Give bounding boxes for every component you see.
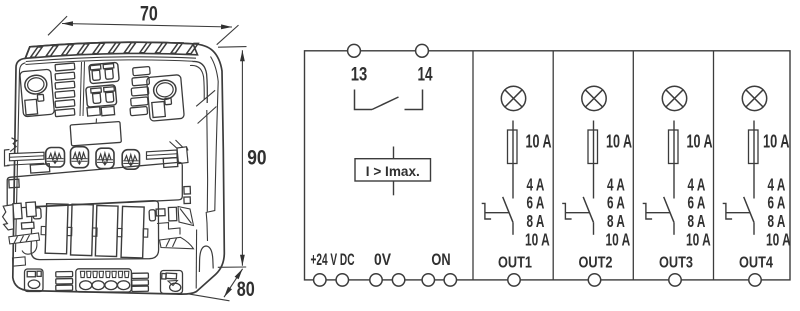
svg-text:4 A: 4 A [527,175,545,195]
overload relay modules [46,148,65,168]
front face top-right rounded corner [193,61,208,103]
svg-text:8 A: 8 A [688,211,706,231]
right bracket small [156,209,165,216]
section divider 3 [632,51,634,280]
supply terminal 5 [422,274,434,286]
linkage stub above Imax box [393,147,395,159]
right potentiometer knob inner [156,82,175,98]
right knob sub rectangle [152,101,166,117]
output terminal OUT3 [669,274,681,286]
dimension 90 extension ticks [218,46,247,49]
left wedge curve [22,241,37,255]
left clip slot tall 2 [26,202,36,217]
supply terminal 4 [392,274,404,286]
side face diagonal creases [196,90,215,106]
wire lamp to fuse OUT1 [512,121,514,199]
bottom center cluster [76,269,132,292]
DIN rail left hook [5,150,10,167]
fuse F1 [508,130,518,164]
terminal ellipses [80,281,92,290]
supply terminal 1 [314,274,326,286]
svg-text:90: 90 [247,145,266,169]
container tab right [149,210,156,221]
fuse F2 [588,130,598,164]
left clip small bar [21,222,34,229]
wire switch to terminal OUT2 [593,222,595,235]
relay contact 13-14 [355,90,373,110]
left potentiometer knob outer [24,74,48,95]
left knob sub rectangle [25,99,38,115]
central connector block upper [89,62,120,83]
svg-text:OUT1: OUT1 [498,255,532,272]
supply terminal 3 [370,274,382,286]
svg-text:13: 13 [351,65,368,86]
front face inner left edge [16,63,26,252]
svg-text:80: 80 [237,277,255,301]
supply terminal 6 [444,274,456,286]
container tab left [33,208,41,219]
svg-text:10 A: 10 A [525,229,550,249]
left edge hook clip [3,205,14,230]
linkage stub below Imax box [393,181,395,195]
mid panel tab left [30,164,50,173]
svg-text:4 A: 4 A [607,175,625,195]
switch blade S4 [744,197,754,222]
svg-text:8 A: 8 A [768,211,786,231]
front/side boundary bottom [195,230,197,289]
side face bottom arch [199,246,213,272]
switch blade S1 [503,197,513,222]
svg-text:OUT3: OUT3 [659,255,693,272]
right folded tab [178,207,194,226]
device top hatched vent band [25,42,197,58]
svg-text:OUT2: OUT2 [579,255,613,272]
manual actuator S4 [723,203,750,219]
section divider 4 [713,51,715,280]
fuse F3 [669,130,679,164]
blank label field [70,121,121,145]
vent slashes [31,43,199,58]
svg-text:10 A: 10 A [526,132,552,152]
svg-text:6 A: 6 A [527,193,545,213]
left LED window column [55,63,75,71]
middle LED window column [133,66,151,75]
device body outline [13,42,225,294]
svg-text:+24 V DC: +24 V DC [311,251,355,269]
svg-text:10 A: 10 A [763,132,790,152]
central connector block lower [86,85,117,107]
bottom left edge clip [13,257,26,266]
front face inner top edge second line [26,60,194,65]
output terminal OUT4 [749,274,761,286]
svg-text:10 A: 10 A [687,132,713,152]
wire switch to terminal OUT4 [753,222,755,235]
right knob panel [146,75,184,122]
svg-text:6 A: 6 A [768,193,786,213]
svg-text:4 A: 4 A [768,175,786,195]
svg-text:10 A: 10 A [606,229,631,249]
wire lamp to fuse OUT3 [673,121,675,199]
wire switch to terminal OUT1 [512,222,514,235]
channel divider lines [80,62,82,116]
left clip slot tall 1 [13,203,22,219]
terminal housing container [31,201,159,260]
overcurrent detector box [355,159,431,181]
inter-port bumps [41,226,46,234]
svg-text:8 A: 8 A [527,211,545,231]
terminal funnels [80,271,128,277]
section divider 1 [472,51,474,280]
terminal 13 [348,44,361,57]
manual actuator S1 [482,203,509,219]
right potentiometer knob outer [152,79,177,101]
svg-text:6 A: 6 A [688,193,706,213]
output terminal OUT1 [508,274,520,286]
manual actuator S3 [643,203,670,219]
DIN rail bar left [10,152,45,161]
left potentiometer knob inner [27,77,45,93]
bottom bars column left [56,271,73,276]
lamp OUT2 [582,86,606,110]
dimension 70 line [62,24,232,28]
dimension 80 line [224,269,243,297]
svg-text:10 A: 10 A [766,229,791,249]
right bracket tall [168,207,176,221]
DIN rail bar right [147,150,178,159]
svg-text:OUT4: OUT4 [739,255,773,272]
section divider 2 [552,51,554,280]
left knob panel [20,69,55,117]
label field tick [95,119,97,124]
output terminal OUT2 [588,274,600,286]
mid panel notch [9,179,19,188]
schematic enclosure box [305,51,791,280]
switch blade S3 [664,197,674,222]
svg-text:10 A: 10 A [606,132,632,152]
right L-bracket [157,223,180,235]
mid panel tab right [163,158,178,168]
svg-text:10 A: 10 A [686,229,711,249]
bottom right terminal block [161,271,183,294]
wire lamp to fuse OUT4 [753,121,755,199]
terminal port rectangles [45,204,68,254]
svg-text:70: 70 [140,3,158,26]
lamp OUT4 [742,86,766,110]
bottom bars column right [132,273,149,278]
mid blank panel [7,162,182,208]
left knob pointer [37,94,44,101]
svg-text:6 A: 6 A [607,193,625,213]
wire lamp to fuse OUT2 [593,121,595,199]
terminal 14 [416,44,429,57]
right hatched wedge [160,237,194,249]
svg-text:I > Imax.: I > Imax. [366,163,420,179]
left panel step line [7,163,44,165]
right knob pointer [165,98,172,105]
fuse F4 [749,130,759,164]
svg-text:ON: ON [431,251,450,269]
dimension 90 line [241,50,243,266]
svg-text:14: 14 [418,65,433,86]
bottom left terminal block [25,269,44,292]
supply terminal 2 [336,274,348,286]
side face inner edge [206,57,218,242]
DIN rail right hook [177,147,188,164]
connector pins [89,64,117,104]
side face rects [184,186,191,194]
front face inner top edge [26,57,196,62]
lamp OUT1 [501,86,525,110]
left hatched wedge [9,233,40,244]
lamp OUT3 [662,86,686,110]
dimension 80 extension tick [188,294,230,301]
rail hook 3d top [170,140,184,149]
wire switch to terminal OUT3 [673,222,675,235]
left edge latch tab [10,138,17,152]
switch blade S2 [583,197,593,222]
small squares below connector [87,107,100,116]
svg-text:0V: 0V [374,251,391,269]
svg-text:8 A: 8 A [607,211,625,231]
dimension 70 extension ticks [48,16,67,35]
svg-text:4 A: 4 A [688,175,706,195]
front/side boundary lower [206,110,209,212]
manual actuator S2 [562,203,589,219]
